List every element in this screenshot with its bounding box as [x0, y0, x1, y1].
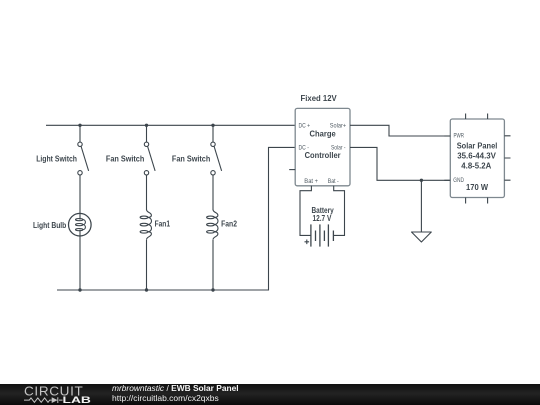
footer bar — [0, 384, 540, 405]
inductor Fan2 — [207, 210, 218, 240]
node ground junction — [420, 179, 423, 182]
svg-text:Charge: Charge — [310, 129, 336, 139]
wire bottom rail — [57, 147, 295, 290]
node top rail / branch 3 — [211, 124, 214, 127]
svg-text:PWR: PWR — [454, 132, 465, 139]
wire to ground — [420, 180, 422, 232]
svg-text:Bat -: Bat - — [328, 178, 339, 185]
svg-text:170 W: 170 W — [466, 182, 489, 192]
svg-text:Controller: Controller — [305, 150, 342, 160]
node top rail / branch 2 — [145, 124, 148, 127]
switch SW2 (Fan Switch) — [144, 142, 155, 175]
switch SW3 (Fan Switch) — [211, 142, 222, 175]
wire branch 1 upper — [79, 125, 81, 142]
wire branch 3 middle — [212, 175, 214, 210]
svg-text:Fan1: Fan1 — [155, 219, 171, 229]
wire branch 1 lower — [79, 236, 81, 290]
solar panel top stubs — [466, 114, 488, 120]
controller unconnected left stub — [289, 169, 295, 171]
node bottom rail / branch 1 — [78, 288, 81, 291]
solar panel SP1 box — [450, 119, 504, 198]
svg-text:Fan2: Fan2 — [221, 219, 237, 229]
svg-text:Light Switch: Light Switch — [36, 154, 77, 164]
wire Solar+ to panel PWR — [350, 125, 450, 136]
wire Solar- to panel GND — [350, 147, 450, 180]
svg-text:Fan Switch: Fan Switch — [106, 154, 144, 164]
wire top rail — [46, 124, 295, 126]
wire branch 3 upper — [212, 125, 214, 142]
svg-text:Fan Switch: Fan Switch — [172, 154, 210, 164]
svg-text:Solar Panel: Solar Panel — [457, 141, 498, 151]
wire branch 1 middle — [79, 175, 81, 213]
svg-text:GND: GND — [453, 177, 464, 184]
solar panel left GND stub — [444, 179, 450, 181]
lamp L1 (Light Bulb) — [69, 213, 92, 236]
svg-text:Bat +: Bat + — [304, 178, 318, 185]
wire Bat- to battery — [333, 186, 344, 236]
svg-text:4.8-5.2A: 4.8-5.2A — [461, 161, 492, 171]
svg-text:12.7 V: 12.7 V — [313, 213, 332, 223]
wire branch 3 lower — [212, 240, 214, 290]
svg-text:mrbrowntastic / EWB Solar Pane: mrbrowntastic / EWB Solar Panel — [112, 383, 239, 393]
solar panel bottom stubs — [466, 198, 488, 204]
svg-text:http://circuitlab.com/cx2qxbs: http://circuitlab.com/cx2qxbs — [112, 393, 219, 403]
svg-text:Fixed 12V: Fixed 12V — [301, 93, 337, 103]
CircuitLab logo diode triangle — [52, 397, 58, 403]
wire branch 2 upper — [146, 125, 148, 142]
CircuitLab logo resistor-diode wire — [24, 397, 63, 403]
solar panel left PWR stub — [444, 135, 450, 137]
solar panel right stubs — [504, 136, 510, 180]
battery plus sign — [305, 240, 310, 245]
svg-text:LAB: LAB — [63, 395, 92, 405]
node top rail / branch 1 — [78, 124, 81, 127]
ground symbol — [412, 232, 432, 242]
svg-text:Light Bulb: Light Bulb — [33, 220, 66, 230]
switch SW1 (Light Switch) — [78, 142, 89, 175]
svg-text:35.6-44.3V: 35.6-44.3V — [457, 150, 496, 160]
wire branch 2 lower — [146, 240, 148, 290]
wire Bat+ to battery — [300, 186, 311, 236]
wire branch 2 middle — [146, 175, 148, 210]
charge controller U1 box — [295, 108, 350, 185]
node bottom rail / branch 3 — [211, 288, 214, 291]
node bottom rail / branch 2 — [145, 288, 148, 291]
battery V1 plates — [311, 224, 334, 246]
inductor Fan1 — [140, 210, 151, 240]
